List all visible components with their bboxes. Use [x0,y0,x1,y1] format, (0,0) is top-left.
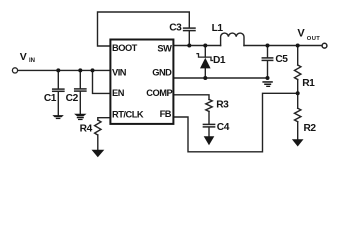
svg-text:L1: L1 [212,23,224,34]
wire C5 bottom lead [267,61,269,78]
wire C4 to ground [208,128,210,137]
junction D1-GND [203,76,207,80]
terminal VIN [12,68,17,73]
capacitor C4 [203,124,214,127]
svg-text:OUT: OUT [307,36,320,42]
wire C5 top lead [267,46,269,58]
wire C1 top lead [57,70,59,88]
junction D1-SW [203,44,207,48]
wire D1 cathode lead [204,46,206,58]
IC U1 body [110,40,173,124]
capacitor C2 [75,89,86,91]
ground symbol earth (C1) [52,115,63,119]
svg-text:V: V [20,51,27,63]
junction C3-SW [187,44,191,48]
wire R3 to C4 [208,111,210,123]
svg-text:V: V [297,27,305,39]
svg-text:FB: FB [160,109,172,119]
wire D1 anode lead [204,68,206,78]
svg-text:C4: C4 [217,122,230,133]
svg-text:C1: C1 [44,93,57,104]
svg-text:R1: R1 [302,78,315,89]
wire EN tap [93,70,111,93]
wire output rail after L1 [244,45,322,47]
resistor R4 [95,120,101,135]
resistor R1 [295,65,301,80]
svg-text:BOOT: BOOT [112,43,138,53]
junction C5-GND [266,76,270,80]
capacitor C3 [184,28,195,31]
svg-text:R4: R4 [80,124,93,135]
svg-text:R2: R2 [304,123,317,134]
svg-text:R3: R3 [216,99,229,110]
svg-text:SW: SW [157,43,172,53]
svg-text:D1: D1 [213,55,226,66]
svg-text:EN: EN [112,88,125,98]
wire COMP lead [173,95,209,100]
wire RT/CLK lead [98,118,111,120]
junction C2-VIN [78,68,82,72]
wire R1-R2 junction lead [297,80,299,109]
junction FB-R1R2 [296,91,300,95]
resistor R2 [295,108,301,122]
wire VIN rail [18,69,111,71]
diode D1 schottky cathode bar [197,54,213,61]
ground symbol triangle (R2) [292,139,304,146]
svg-text:C3: C3 [169,22,182,33]
capacitor C1 [53,89,64,91]
inductor L1 [221,33,244,45]
svg-text:IN: IN [29,58,35,64]
ground symbol triangle-bar (C2) [74,114,86,120]
wire SW rail [173,45,220,47]
ground symbol triangle (C4) [204,136,215,145]
junction EN-VIN [91,68,95,72]
wire R4 bottom lead [97,135,99,150]
junction C5-rail [266,44,270,48]
svg-text:C2: C2 [66,93,79,104]
svg-text:C5: C5 [275,54,288,65]
junction C1-VIN [56,68,60,72]
svg-text:VIN: VIN [112,68,127,78]
diode D1 triangle [200,58,211,69]
wire R1 top lead [297,46,299,66]
svg-text:COMP: COMP [146,88,172,98]
wire C1 bottom lead [57,92,59,115]
wire R2 bottom lead [297,122,299,139]
ground symbol earth (C5) [262,81,272,87]
svg-text:RT/CLK: RT/CLK [112,109,144,119]
terminal VOUT [322,43,327,48]
wire C3 to SW rail [188,31,190,45]
wire BOOT loop [98,12,190,46]
capacitor C5 [262,58,272,61]
resistor R3 [206,99,212,111]
junction R1-rail [296,44,300,48]
wire C2 bottom lead [79,92,81,114]
ground symbol triangle (R4) [92,150,105,157]
wire GND rail [173,77,267,79]
wire C2 top lead [79,70,81,88]
svg-text:GND: GND [152,68,172,78]
wire FB feedback loop [173,93,297,152]
